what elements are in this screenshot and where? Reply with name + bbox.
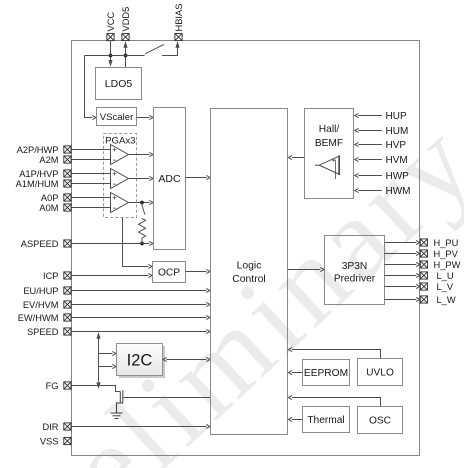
svg-text:UVLO: UVLO	[366, 368, 394, 379]
wire EEPROM to Logic Control	[288, 370, 302, 374]
switch blade to HBIAS	[145, 44, 164, 53]
svg-text:VSS: VSS	[40, 436, 59, 446]
pin A2P/HWP	[64, 146, 71, 153]
dashed PGA group box	[104, 134, 137, 218]
pin A1M/HUM	[64, 180, 71, 187]
wire bus to VScaler	[85, 56, 97, 120]
op-amp PGA2	[111, 169, 129, 189]
svg-text:VDD5: VDD5	[121, 7, 131, 32]
svg-text:HUP: HUP	[386, 111, 407, 122]
svg-text:L_W: L_W	[437, 295, 456, 305]
pin A0M	[64, 204, 71, 211]
block EEPROM	[303, 360, 350, 386]
wire PGA2 to ADC	[129, 176, 154, 180]
svg-text:L_U: L_U	[437, 271, 454, 281]
wire PGA3 to ADC	[129, 200, 154, 204]
wire DIR to Logic Control	[71, 424, 210, 428]
pin H_PU	[420, 239, 427, 246]
wire I2C riser	[96, 332, 100, 389]
wire ASPEED to ADC	[71, 241, 153, 245]
block UVLO	[358, 359, 403, 386]
wire UVLO to Logic Control	[288, 347, 380, 358]
block 3P3N Predriver	[325, 236, 385, 305]
svg-text:A1M/HUM: A1M/HUM	[16, 179, 59, 189]
svg-text:DIR: DIR	[42, 422, 58, 432]
svg-text:HWM: HWM	[386, 186, 411, 197]
svg-text:EW/HWM: EW/HWM	[18, 313, 59, 323]
svg-text:EEPROM: EEPROM	[304, 368, 348, 379]
wire PGA tap to OCP	[123, 218, 153, 269]
wire 3P3N to H_PV	[385, 251, 420, 255]
wire ADC to Logic Control	[186, 175, 211, 179]
pin A0P	[64, 194, 71, 201]
pin A1P/HVP	[64, 170, 71, 177]
svg-text:VCC: VCC	[106, 12, 116, 32]
pin L_U	[420, 272, 427, 279]
svg-text:ASPEED: ASPEED	[21, 239, 59, 249]
pin ASPEED	[64, 240, 71, 247]
wire A2P/HWP to PGA	[71, 149, 111, 151]
svg-text:EU/HUP: EU/HUP	[23, 286, 58, 296]
wire VCC down to LDO5	[108, 41, 112, 67]
svg-text:I2C: I2C	[127, 351, 153, 369]
pin A2M	[64, 156, 71, 163]
pin EU/HUP	[64, 287, 71, 294]
wire Thermal to Logic Control	[288, 417, 302, 421]
block OCP	[153, 262, 186, 283]
svg-text:Logic: Logic	[237, 260, 262, 271]
svg-text:HBIAS: HBIAS	[174, 4, 184, 32]
pin SPEED	[64, 328, 71, 335]
svg-text:HVP: HVP	[386, 140, 407, 151]
svg-text:Hall/: Hall/	[319, 124, 340, 135]
svg-text:Control: Control	[232, 274, 266, 285]
svg-text:ICP: ICP	[43, 271, 59, 281]
pin HBIAS	[175, 33, 182, 40]
wire EU/HUP to Logic Control	[71, 288, 210, 292]
svg-text:EV/HVM: EV/HVM	[23, 300, 59, 310]
wire OSC to Logic Control	[288, 395, 380, 406]
svg-text:H_PW: H_PW	[434, 260, 461, 270]
block ADC	[154, 108, 186, 250]
svg-text:HWP: HWP	[386, 171, 410, 182]
wire 3P3N to L_U	[385, 273, 420, 277]
wire VScaler to ADC	[137, 115, 154, 119]
wire ICP to OCP	[71, 273, 152, 277]
block OSC	[358, 407, 403, 434]
wire A2M to PGA	[71, 159, 111, 161]
wire HUP to Hall	[355, 113, 382, 117]
wire PGA1 to ADC	[129, 152, 154, 156]
resistor to ASPEED	[139, 218, 146, 243]
wire FG to transistor gate	[71, 386, 120, 392]
svg-text:3P3N: 3P3N	[342, 261, 367, 272]
pin VDD5	[122, 33, 129, 40]
pin EV/HVM	[64, 301, 71, 308]
wire A0P to PGA	[71, 197, 111, 199]
block Hall/BEMF	[305, 109, 354, 199]
wire transistor drain to Logic Control	[123, 397, 211, 399]
pin L_W	[420, 296, 427, 303]
svg-text:SPEED: SPEED	[27, 327, 59, 337]
pin ICP	[64, 272, 71, 279]
wire VDD5 up from LDO5	[123, 41, 127, 68]
junction dot ASPEED	[140, 242, 144, 246]
svg-text:A0M: A0M	[39, 203, 58, 213]
block VScaler	[97, 108, 137, 126]
wire Hall/BEMF to Logic Control	[288, 155, 304, 159]
svg-text:BEMF: BEMF	[315, 138, 343, 149]
pin VSS	[64, 437, 71, 444]
pin DIR	[64, 423, 71, 430]
pin EW/HWM	[64, 314, 71, 321]
switch to resistor	[142, 203, 145, 215]
wire EW/HWM to Logic Control	[71, 315, 210, 319]
wire HWP to Hall	[355, 173, 382, 177]
wire supply bus	[85, 55, 145, 57]
wire HWM to Hall	[355, 188, 382, 192]
svg-text:OCP: OCP	[158, 268, 180, 279]
wire A1M/HUM to PGA	[71, 183, 111, 185]
transistor Q1	[117, 390, 123, 413]
wire 3P3N to L_V	[385, 284, 420, 288]
wire riser tap1 to I2C	[99, 351, 117, 355]
wire 3P3N to L_W	[385, 297, 420, 301]
wire A1P/HVP to PGA	[71, 173, 111, 175]
pin L_V	[420, 283, 427, 290]
svg-text:OSC: OSC	[369, 416, 391, 427]
pin H_PV	[420, 250, 427, 257]
svg-text:ADC: ADC	[158, 173, 181, 185]
junction dot VCC	[109, 54, 113, 58]
svg-text:A2M: A2M	[39, 155, 58, 165]
wire I2C to Logic Control both arrows	[163, 357, 210, 361]
junction dot VDD5	[124, 54, 128, 58]
wire riser tap2 to I2C	[99, 364, 117, 368]
wire Logic Control to 3P3N	[288, 267, 325, 271]
pin H_PW	[420, 261, 427, 268]
wire SPEED to Logic Control	[71, 329, 210, 333]
svg-text:Predriver: Predriver	[334, 274, 376, 285]
svg-text:Thermal: Thermal	[307, 415, 344, 426]
svg-text:LDO5: LDO5	[105, 78, 133, 90]
wire EV/HVM to Logic Control	[71, 302, 210, 306]
op-amp PGA3	[111, 193, 129, 213]
svg-text:L_V: L_V	[437, 282, 454, 292]
block Logic Control	[211, 109, 288, 435]
ground	[111, 413, 123, 419]
svg-text:HUM: HUM	[386, 126, 409, 137]
svg-text:A2P/HWP: A2P/HWP	[17, 145, 59, 155]
svg-text:A0P: A0P	[41, 193, 59, 203]
svg-text:A1P/HVP: A1P/HVP	[19, 169, 58, 179]
wire 3P3N to H_PW	[385, 262, 420, 266]
wire switch contact to HBIAS pin	[162, 41, 180, 56]
wire A0M to PGA	[71, 207, 111, 209]
block I2C	[117, 344, 166, 379]
op-amp PGA1	[111, 145, 129, 165]
wire HVP to Hall	[355, 142, 382, 146]
outer chip frame	[72, 41, 420, 456]
junction dot PGA3 output	[140, 201, 144, 205]
svg-text:HVM: HVM	[386, 155, 408, 166]
pin VCC	[107, 33, 114, 40]
pin FG	[64, 382, 71, 389]
svg-text:VScaler: VScaler	[100, 112, 134, 123]
block Thermal	[303, 407, 350, 433]
comparator inside Hall/BEMF	[315, 156, 340, 180]
wire HUM to Hall	[355, 128, 382, 132]
wire OCP to Logic Control	[186, 269, 211, 273]
block LDO5	[96, 68, 142, 100]
svg-text:H_PV: H_PV	[434, 249, 459, 259]
svg-text:FG: FG	[46, 381, 59, 391]
svg-text:H_PU: H_PU	[434, 238, 459, 248]
svg-text:PGAx3: PGAx3	[105, 136, 135, 147]
wire 3P3N to H_PU	[385, 240, 420, 244]
wire HVM to Hall	[355, 157, 382, 161]
